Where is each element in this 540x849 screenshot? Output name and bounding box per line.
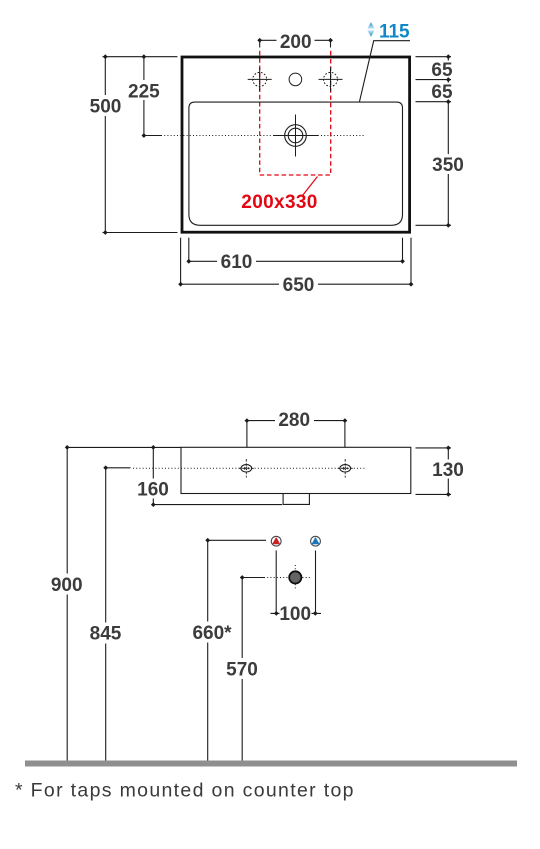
svg-text:130: 130 bbox=[432, 460, 464, 481]
svg-text:660*: 660* bbox=[192, 623, 232, 644]
cold tap symbol bbox=[311, 536, 321, 546]
dimension 500 (left) bbox=[86, 54, 178, 235]
dimension 225 (left inner) bbox=[125, 54, 164, 138]
drain centerline solid stub bbox=[144, 135, 161, 137]
svg-text:160: 160 bbox=[137, 479, 169, 500]
dimensions 65/65/350 (right) bbox=[416, 54, 467, 227]
svg-text:570: 570 bbox=[226, 660, 258, 681]
dimension 650 (bottom) bbox=[178, 238, 413, 296]
dimension 280 bbox=[245, 410, 348, 447]
svg-text:* For taps mounted on counter: * For taps mounted on counter top bbox=[15, 780, 355, 802]
svg-text:65: 65 bbox=[431, 82, 453, 103]
drain centerline dotted bbox=[161, 135, 364, 137]
svg-text:225: 225 bbox=[128, 81, 160, 102]
dimension 160 bbox=[134, 445, 283, 507]
basin body (front) bbox=[181, 447, 411, 493]
svg-text:900: 900 bbox=[51, 575, 83, 596]
svg-text:845: 845 bbox=[90, 624, 122, 645]
waste outlet bbox=[289, 571, 301, 583]
svg-text:610: 610 bbox=[221, 252, 253, 273]
inner basin outline bbox=[189, 102, 403, 225]
svg-text:350: 350 bbox=[432, 155, 464, 176]
dimension 845 bbox=[86, 465, 131, 760]
svg-text:650: 650 bbox=[283, 275, 315, 296]
svg-text:200x330: 200x330 bbox=[241, 192, 317, 213]
waste outlet dotted crosshair bbox=[264, 565, 311, 591]
svg-text:500: 500 bbox=[90, 97, 122, 118]
right tap hole bbox=[319, 67, 343, 91]
front centerline dotted bbox=[133, 467, 367, 469]
drain bbox=[273, 115, 318, 157]
dimension 100 (tap spacing) bbox=[271, 551, 322, 626]
left fixing hole bbox=[239, 459, 254, 478]
outer basin outline (top view) bbox=[182, 57, 410, 232]
dimension 900 bbox=[47, 445, 181, 761]
dimension 570 bbox=[223, 575, 265, 760]
svg-text:115: 115 bbox=[379, 22, 410, 43]
svg-text:280: 280 bbox=[278, 410, 310, 431]
red leader line bbox=[303, 177, 318, 196]
dimension 200 (tap spacing) bbox=[257, 31, 333, 53]
red dashed mounting area 200x330 bbox=[260, 51, 331, 175]
dimension 610 (bottom) bbox=[186, 238, 404, 273]
svg-text:65: 65 bbox=[431, 60, 453, 81]
dimension 115 (depth) blue bbox=[359, 22, 410, 102]
dimension 130 bbox=[416, 446, 467, 497]
right fixing hole bbox=[338, 459, 353, 478]
svg-text:200: 200 bbox=[280, 32, 312, 53]
dimension 660* bbox=[189, 538, 266, 761]
drain trap notch bbox=[283, 494, 309, 505]
svg-text:100: 100 bbox=[279, 604, 311, 625]
floor line bbox=[25, 761, 517, 767]
left tap hole bbox=[248, 67, 272, 91]
overflow hole bbox=[289, 73, 302, 86]
hot tap symbol bbox=[271, 536, 281, 546]
